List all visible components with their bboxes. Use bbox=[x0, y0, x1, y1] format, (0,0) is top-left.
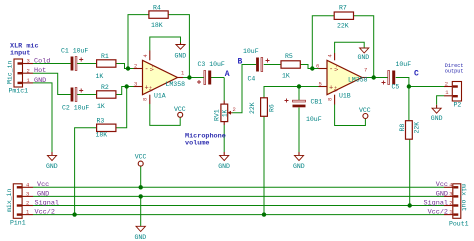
svg-text:VCC: VCC bbox=[174, 106, 186, 113]
bus wire Vcc bbox=[33, 186, 444, 188]
wire C4 to R5 bbox=[264, 64, 281, 66]
connector Pout1 bbox=[444, 181, 469, 227]
wire RV1 wiper to node B bbox=[233, 65, 257, 113]
resistor R2 bbox=[97, 84, 116, 110]
wire U1A output to C3 bbox=[178, 77, 204, 79]
svg-text:GND: GND bbox=[175, 53, 187, 60]
wire R4 feedback left vertical bbox=[128, 15, 149, 69]
junction U1A pin3 / R2 / R3 bbox=[125, 84, 129, 88]
svg-text:1K: 1K bbox=[96, 73, 104, 80]
svg-text:C5: C5 bbox=[392, 84, 400, 91]
svg-text:GND: GND bbox=[135, 234, 147, 241]
connector P2 bbox=[444, 81, 462, 109]
svg-text:18K: 18K bbox=[96, 132, 108, 139]
wire U1A V+ to VCC bbox=[150, 104, 180, 125]
svg-text:2: 2 bbox=[27, 67, 30, 74]
svg-text:R3: R3 bbox=[97, 117, 105, 124]
wire cold row bbox=[33, 63, 71, 65]
svg-text:GND: GND bbox=[218, 163, 230, 170]
svg-text:V-: V- bbox=[149, 65, 155, 71]
svg-text:Pmic1: Pmic1 bbox=[9, 88, 29, 95]
junction U1A pin2 / R1 / R4 bbox=[126, 66, 130, 70]
wire hot row down to C2 bbox=[33, 73, 71, 94]
junction VCC / Vcc bus bbox=[139, 185, 143, 189]
svg-text:Vcc: Vcc bbox=[37, 181, 49, 189]
svg-text:1K: 1K bbox=[97, 103, 105, 110]
svg-text:10uF: 10uF bbox=[396, 61, 412, 68]
svg-text:Signal: Signal bbox=[424, 199, 448, 207]
junction U1B pin6 / R5 / R7 bbox=[310, 66, 314, 70]
svg-text:V-: V- bbox=[334, 65, 340, 71]
wire R6 bottom to Vcc2 bus bbox=[263, 116, 265, 214]
wire node A down to RV1 bbox=[223, 78, 225, 101]
ground CB1 bbox=[293, 152, 305, 170]
svg-text:2: 2 bbox=[449, 200, 452, 207]
svg-text:Pout1: Pout1 bbox=[449, 220, 469, 227]
svg-text:3: 3 bbox=[26, 191, 29, 198]
power VCC U1B bbox=[359, 107, 371, 119]
wire pin5 bias row bbox=[264, 87, 319, 98]
svg-text:volume: volume bbox=[185, 140, 209, 148]
svg-text:mix_in: mix_in bbox=[6, 188, 13, 212]
wire C2 to R2 bbox=[77, 94, 97, 96]
junction U1B output / R7 bbox=[372, 75, 376, 79]
junction U1A output / R4 bbox=[187, 75, 191, 79]
svg-text:LM358: LM358 bbox=[166, 81, 186, 88]
wire U1B V+ to VCC bbox=[335, 105, 366, 126]
svg-text:R7: R7 bbox=[339, 5, 347, 12]
wire CB1 bottom to gnd bbox=[298, 108, 300, 153]
svg-text:CB1: CB1 bbox=[311, 99, 323, 106]
svg-text:22K: 22K bbox=[337, 23, 349, 30]
connector Pmic1 bbox=[7, 58, 34, 95]
svg-text:2: 2 bbox=[134, 62, 137, 69]
svg-text:R6: R6 bbox=[269, 104, 276, 112]
svg-text:GND: GND bbox=[37, 190, 49, 198]
bus wire GND bbox=[33, 195, 444, 197]
wire RV1 bottom to gnd bbox=[223, 125, 225, 152]
svg-text:5: 5 bbox=[319, 80, 322, 87]
svg-text:GND: GND bbox=[358, 54, 370, 61]
svg-text:7: 7 bbox=[364, 67, 367, 74]
capacitor CB1 bbox=[285, 99, 323, 124]
svg-text:mix_out: mix_out bbox=[460, 184, 467, 211]
svg-text:GND: GND bbox=[436, 190, 448, 198]
capacitor C1 bbox=[61, 48, 88, 71]
wire R7 right vertical to output bbox=[354, 16, 374, 78]
svg-text:8: 8 bbox=[142, 98, 149, 101]
bus wire Vcc2 bbox=[33, 214, 444, 216]
svg-text:6: 6 bbox=[316, 62, 319, 69]
capacitor C4 bbox=[243, 48, 270, 83]
junction ground / GND bus bbox=[139, 194, 143, 198]
ground U1B bbox=[358, 48, 370, 62]
wire R5 to U1B pin6 with jog bbox=[300, 65, 318, 69]
svg-text:VCC: VCC bbox=[135, 153, 147, 160]
wire R3 vertical to pin3 bbox=[116, 87, 127, 128]
wire gnd pin to ground bbox=[33, 83, 52, 152]
svg-text:R4: R4 bbox=[153, 5, 161, 12]
svg-text:B: B bbox=[238, 58, 243, 67]
junction R8 / Signal bus bbox=[408, 203, 412, 207]
svg-text:8: 8 bbox=[326, 98, 333, 101]
junction node C / R8 / P2 bbox=[407, 84, 411, 88]
resistor R6 bbox=[249, 98, 276, 117]
svg-text:GND: GND bbox=[293, 163, 305, 170]
op-amp U1A bbox=[134, 51, 186, 105]
junction U1B pin5 / CB1 bbox=[297, 84, 301, 88]
resistor R8 bbox=[399, 121, 421, 140]
svg-text:C4: C4 bbox=[248, 76, 256, 83]
svg-text:Pin1: Pin1 bbox=[10, 219, 26, 226]
svg-text:R8: R8 bbox=[399, 124, 406, 132]
svg-text:GND: GND bbox=[46, 163, 58, 170]
wire C1 to R1 bbox=[77, 63, 97, 65]
ground RV1 bbox=[218, 152, 230, 170]
ground U1A bbox=[175, 43, 187, 60]
svg-text:P2: P2 bbox=[454, 102, 462, 109]
wire VCC to bus1 bbox=[140, 166, 142, 187]
resistor R7 bbox=[334, 5, 353, 30]
ground bus bbox=[135, 226, 147, 241]
svg-text:input: input bbox=[10, 49, 30, 57]
svg-text:2: 2 bbox=[445, 81, 448, 88]
svg-text:Signal: Signal bbox=[35, 199, 59, 207]
wire U1B V- to gnd bbox=[335, 42, 365, 53]
svg-text:Hot: Hot bbox=[34, 67, 46, 75]
wire C3 to node A and down to RV1 bbox=[210, 77, 224, 79]
resistor R5 bbox=[281, 53, 300, 80]
svg-text:C3 10uF: C3 10uF bbox=[198, 61, 225, 68]
wire R1 to U1A pin2 with jog bbox=[116, 64, 134, 69]
capacitor C5 bbox=[382, 61, 412, 91]
svg-text:1K: 1K bbox=[282, 73, 290, 80]
connector Pin1 bbox=[6, 181, 33, 226]
wire gnd bus2 tap down bbox=[140, 196, 142, 226]
wire C5 to node C and down bbox=[396, 78, 409, 87]
wire R7 feedback left vertical bbox=[312, 16, 334, 69]
svg-text:3: 3 bbox=[134, 80, 137, 87]
resistor R4 bbox=[149, 5, 168, 30]
wire R3 left to Vcc2 bus bbox=[75, 128, 97, 215]
svg-text:GND: GND bbox=[34, 77, 46, 85]
svg-text:C: C bbox=[414, 69, 419, 78]
svg-text:R5: R5 bbox=[285, 53, 293, 60]
svg-text:10uF: 10uF bbox=[306, 116, 322, 123]
svg-text:R2: R2 bbox=[101, 84, 109, 91]
svg-text:2: 2 bbox=[233, 106, 236, 113]
svg-text:22K: 22K bbox=[414, 122, 421, 134]
wire R4 right vertical to output bbox=[168, 15, 189, 78]
ground P2 bbox=[431, 105, 443, 122]
capacitor C2 bbox=[62, 88, 89, 112]
ground mic gnd bbox=[46, 152, 58, 170]
svg-text:-: - bbox=[329, 66, 333, 74]
svg-text:22K: 22K bbox=[249, 102, 256, 114]
wire R2 to U1A pin3 with jog bbox=[116, 87, 134, 95]
potentiometer RV1 bbox=[214, 101, 236, 126]
svg-text:Vcc/2: Vcc/2 bbox=[428, 209, 448, 217]
svg-text:R1: R1 bbox=[101, 53, 109, 60]
power VCC bus bbox=[135, 153, 147, 166]
bus wire Signal bbox=[33, 205, 444, 207]
power VCC U1A bbox=[174, 106, 186, 117]
wire R8 top bbox=[408, 87, 410, 121]
wire node C to P2 pin2 bbox=[409, 86, 444, 88]
svg-text:VCC: VCC bbox=[359, 107, 371, 114]
svg-text:Vcc/2: Vcc/2 bbox=[35, 209, 55, 217]
svg-text:3: 3 bbox=[27, 58, 30, 65]
svg-text:U1A: U1A bbox=[154, 93, 166, 100]
junction R3 / Vcc2 bus bbox=[72, 212, 76, 216]
svg-text:3: 3 bbox=[449, 191, 452, 198]
wire U1B output to C5 bbox=[362, 77, 388, 79]
svg-text:U1B: U1B bbox=[339, 93, 351, 100]
resistor R3 bbox=[96, 117, 116, 138]
svg-text:18K: 18K bbox=[151, 22, 163, 29]
svg-text:Mic_in: Mic_in bbox=[7, 60, 14, 84]
wire U1A V- to gnd bbox=[150, 37, 181, 51]
resistor R1 bbox=[96, 53, 116, 80]
svg-text:LM358: LM358 bbox=[348, 77, 368, 84]
capacitor C3 bbox=[197, 61, 225, 85]
svg-text:Cold: Cold bbox=[34, 58, 50, 66]
svg-text:-: - bbox=[145, 66, 149, 74]
svg-text:A: A bbox=[225, 70, 230, 79]
wire P2 pin1 to gnd bbox=[437, 96, 444, 105]
wire R8 bottom to signal bus bbox=[409, 138, 411, 205]
svg-text:C2 10uF: C2 10uF bbox=[62, 105, 89, 112]
svg-text:2: 2 bbox=[26, 200, 29, 207]
svg-text:GND: GND bbox=[431, 115, 443, 122]
svg-text:V+: V+ bbox=[149, 86, 155, 92]
svg-text:RV1: RV1 bbox=[214, 109, 221, 121]
junction R6 / Vcc2 bus bbox=[262, 212, 266, 216]
op-amp U1B bbox=[316, 53, 368, 105]
svg-text:Vcc: Vcc bbox=[436, 181, 448, 189]
wire CB1 top bbox=[298, 87, 300, 101]
svg-text:C1 10uF: C1 10uF bbox=[61, 48, 88, 55]
svg-text:V+: V+ bbox=[333, 86, 339, 92]
svg-text:output: output bbox=[445, 69, 464, 75]
svg-text:1K: 1K bbox=[221, 109, 228, 117]
svg-text:10uF: 10uF bbox=[243, 48, 259, 55]
